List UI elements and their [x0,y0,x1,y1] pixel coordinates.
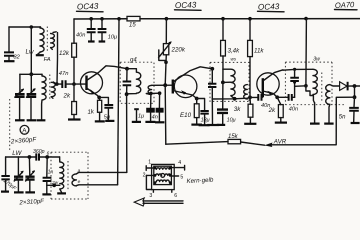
wire tank bottom to osc winding [126,94,128,172]
module mid elements [156,174,171,178]
svg-text:220k: 220k [171,47,186,54]
wire left bias line from rail [73,19,75,43]
wire diode load [354,86,356,97]
svg-text:5: 5 [180,175,183,181]
node osc cap [45,155,49,159]
node tap IFT2 [221,81,225,85]
svg-text:2: 2 [143,173,146,179]
label OA70 diode [335,0,358,10]
svg-text:40n: 40n [289,107,298,113]
node emitter T2 [195,97,199,101]
variable capacitor C gang1a [15,74,25,120]
label OC43 stage2 [175,0,202,10]
svg-text:OC43: OC43 [77,2,99,12]
module coil top [156,168,169,170]
svg-text:ws: ws [231,57,237,62]
inductor osc tank coil [127,69,141,94]
dashed box oscillator coil [51,152,88,199]
wire feedback top [76,172,126,174]
label A circled [20,125,29,134]
capacitor IFT3 tank [290,69,299,97]
wire tank ground IFT2 [211,99,213,124]
core dashes MW transformer [49,75,51,101]
svg-text:OC43: OC43 [175,0,197,10]
wire osc tuned bus [6,156,60,158]
wire secondary bottom [146,92,159,94]
svg-text:2k: 2k [63,93,71,100]
ground IFT3 primary [310,122,320,124]
node emitter T3 [275,95,279,99]
svg-text:2w: 2w [51,180,59,186]
pin 3 [149,190,153,199]
node tank bottom [293,81,296,84]
wire secondary to diode [330,85,340,86]
inductor IFT3 secondary [326,85,330,123]
node 47n left [55,82,59,86]
svg-text:5n: 5n [339,115,346,121]
wire LW secondary down to 47n node [56,33,59,84]
inductor Lw secondary [51,32,57,50]
ground chassis Lw [36,54,44,56]
svg-text:3k: 3k [234,106,241,113]
wire base T2 [152,84,173,86]
svg-text:Kern·gelb: Kern·gelb [186,177,214,185]
dashed box IFT2 [210,62,249,101]
arrowhead AVR [264,143,272,148]
diode OA70 [340,82,360,91]
svg-text:OC43: OC43 [258,2,280,12]
svg-text:Lw: Lw [26,49,35,56]
core dashes osc [67,161,69,190]
ground IFT2 [207,124,219,126]
capacitor 10u AVC [217,82,236,125]
wire 2k to ground [73,115,75,119]
node collector T2 [210,67,214,71]
svg-text:1μ: 1μ [138,113,144,119]
capacitor 10u rail bypass [98,19,117,42]
resistor 12k [59,43,77,57]
svg-text:11k: 11k [254,48,264,55]
svg-text:E10: E10 [180,112,192,119]
node base T2 [163,83,167,87]
pin 5 [171,175,183,181]
node IFT3 supply joint [304,84,308,88]
label OC43 stage1 [77,2,104,12]
inductor MW primary [42,74,47,119]
node base bias T1 [72,82,76,86]
wire 3,4k into box [222,56,224,82]
capacitor 5n [339,97,360,123]
module coil bottom [156,180,169,182]
wire IFT2 bottom [212,97,250,99]
svg-text:12k: 12k [59,50,70,57]
svg-text:g4: g4 [130,58,137,64]
resistor 3,4k [221,19,241,56]
variable capacitor gang2a [14,157,24,192]
node antenna [30,25,34,29]
capacitor osc tank [123,69,132,94]
module pin dots [154,167,172,184]
inductor IFT3 primary [313,69,317,122]
svg-text:6: 6 [47,151,50,157]
node IFT3 tank top [293,68,296,71]
pin 2 [143,173,154,190]
svg-text:3: 3 [149,193,152,199]
capacitor 47n [57,71,74,88]
ground IFT3 secondary [324,122,333,124]
inductor IFT2 secondary [244,85,248,99]
capacitor 82 [4,52,21,61]
capacitor 4n [145,93,155,122]
core dashes IFT3 [321,73,323,102]
wire gang top bus [20,73,42,75]
label OC43 stage3 [258,2,285,12]
capacitor 40n rail bypass [76,19,96,42]
resistor 1k [87,97,105,121]
svg-text:4n: 4n [152,114,158,120]
variable capacitor gang2b [25,157,35,192]
inductor osc feedback [72,174,76,186]
pin 1 [146,159,154,170]
transistor T2 OC43 [173,67,213,99]
capacitor IFT2 tank [208,69,216,99]
svg-text:40n: 40n [76,33,85,39]
svg-text:4: 4 [178,160,181,166]
svg-text:AVR: AVR [273,139,287,146]
wire AVR left segment [166,142,265,146]
node pot bottom [164,60,168,64]
node AVR pickoff [353,95,357,99]
wire staircase to coil bottom [306,86,315,103]
module filter box outer [152,164,175,189]
node emitter T1 [97,96,101,100]
capacitor 360p series [33,149,50,160]
resistor 15k [228,134,241,144]
resistor 15 in rail [127,16,140,28]
svg-text:1: 1 [148,159,151,165]
capacitor 40n emitter T3 [277,94,298,113]
node sec cap1 [149,92,153,96]
wire tank to supply joint [295,85,306,88]
inductor IFT1 secondary [146,85,151,94]
node osc tap [52,183,56,187]
svg-text:18μ: 18μ [201,118,210,124]
resistor 2k T3 [268,97,287,122]
svg-text:47n: 47n [59,71,69,77]
arrow tuning direction [134,198,183,206]
wire antenna top [9,26,41,28]
variable capacitor C gang1b [26,74,36,120]
resistor 11k [248,19,265,57]
wire osc feed line from rail [118,19,119,185]
svg-text:FA: FA [44,57,51,63]
wire rail right part [140,18,360,20]
svg-text:3,4k: 3,4k [228,48,241,55]
node tank bottom [125,92,129,96]
wire supply to IFT3 [305,19,308,86]
resistor 2k T1 bias [63,93,77,115]
node rail junctions [89,17,307,21]
wire top supply rail [74,18,127,20]
wire feedback bottom [76,184,118,187]
wire 11k to base node [249,57,251,98]
svg-text:6: 6 [174,193,177,199]
wire AVR feedback [272,97,355,145]
svg-text:82: 82 [14,55,21,61]
capacitor 40n base T3 [250,94,270,109]
ground osc primary [57,192,66,194]
inductor Lw primary [38,27,44,54]
ground MW primary [37,119,46,121]
wire IFT3 top [294,68,313,70]
node collector T1 [125,67,129,71]
transistor T3 OC43 [257,70,283,98]
resistor 3k [244,97,256,123]
core dashes antenna transformer [46,27,48,53]
node osc gang [28,155,32,159]
wire AVR drop [164,85,167,144]
wire pot line from rail [165,19,167,44]
capacitor 1u [132,109,144,122]
node IFT2 bottom [233,97,237,101]
inductor osc primary [60,157,64,192]
capacitor 18u [197,99,210,126]
svg-text:15: 15 [129,23,136,29]
wire collector T3 to IFT3 [283,68,294,71]
node tuning top [29,72,33,76]
svg-text:10μ: 10μ [227,117,236,123]
pin 6 [172,190,177,200]
capacitor 270pF antenna [1,157,18,192]
svg-text:OA70: OA70 [335,0,356,10]
wire osc cap to coil [47,184,60,186]
svg-text:10μ: 10μ [108,35,117,41]
node sec cap2 [158,91,162,95]
wire node to 2k [73,84,75,101]
capacitor 5u emitter bypass [99,97,114,121]
inductor MW secondary [51,82,56,98]
dashed box IFT1 [120,62,154,103]
wire main tuning line [30,27,32,74]
svg-text:2k: 2k [268,107,276,114]
node base T3 [248,96,252,100]
svg-text:15k: 15k [228,134,239,140]
node diode out [353,84,357,88]
svg-text:A: A [22,127,27,134]
module filter box inner [154,166,172,184]
svg-text:5μ: 5μ [104,114,110,120]
pin 4 [171,160,184,170]
wire 12k to base node [73,57,75,84]
capacitor 1n osc [42,157,53,194]
wire antenna left drop [8,27,10,52]
wire base T1 [74,83,87,85]
ground under 2k [68,118,81,120]
svg-text:1n: 1n [48,170,54,176]
dashed link tuning gang [9,99,11,152]
potentiometer 220k [159,41,186,60]
wire tap to coil [223,81,231,83]
dashed box IFT3 [285,62,345,105]
resistor E10 [180,99,202,125]
svg-text:LW: LW [12,150,22,157]
transistor T1 OC43 [81,66,128,99]
wire pot to base node [165,55,166,85]
capacitor 6n [152,93,165,122]
svg-text:360p: 360p [33,149,45,155]
inductor IFT2 primary [223,69,235,99]
